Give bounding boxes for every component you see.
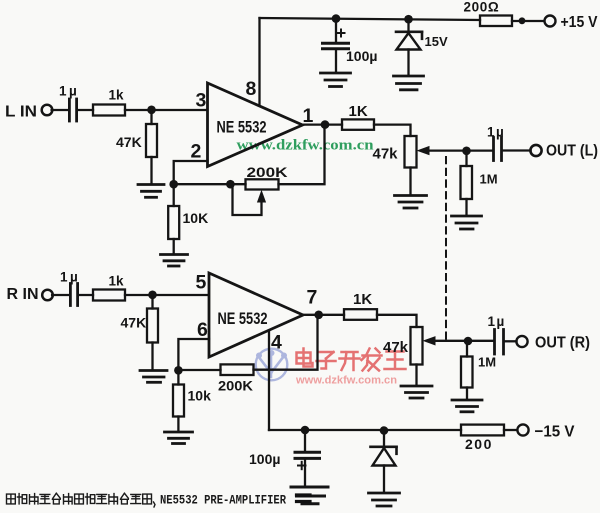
- wire C2 to ground: [335, 50, 337, 72]
- svg-text:+15 V: +15 V: [561, 14, 598, 31]
- ground G3: [321, 73, 351, 87]
- terminal -15V: [517, 424, 574, 441]
- resistor R2 47K: [116, 124, 157, 157]
- wire R12 to ground: [466, 388, 468, 399]
- node M junction: [301, 426, 310, 435]
- svg-text:NE5532 PRE-AMPLIFIER: NE5532 PRE-AMPLIFIER: [160, 494, 286, 508]
- svg-text:−15 V: −15 V: [535, 424, 575, 441]
- ground G5: [395, 196, 427, 209]
- wire +15V rail: [260, 18, 481, 20]
- terminal L IN: [5, 104, 52, 121]
- svg-text:200K: 200K: [247, 164, 288, 180]
- svg-text:200: 200: [465, 436, 493, 452]
- wire RP2 to ground: [409, 168, 411, 195]
- wire gang dashed: [445, 157, 447, 341]
- svg-text:15V: 15V: [425, 34, 448, 49]
- svg-text:R IN: R IN: [7, 286, 39, 303]
- resistor R3 10K: [168, 206, 208, 239]
- ground G6: [452, 216, 482, 229]
- wire C3 to OUT L: [503, 149, 531, 151]
- ground G7: [140, 371, 167, 383]
- resistor R1 1k: [93, 88, 125, 116]
- caption end mark: [297, 495, 311, 502]
- wire node D down: [335, 19, 337, 42]
- wire R IN to C4: [52, 294, 68, 296]
- svg-text:2: 2: [191, 141, 202, 163]
- resistor R12 1M: [461, 355, 496, 388]
- svg-text:1µ: 1µ: [488, 314, 506, 329]
- svg-text:47k: 47k: [373, 146, 399, 163]
- svg-text:200Ω: 200Ω: [464, 0, 500, 15]
- ground G2: [161, 255, 188, 267]
- svg-text:200K: 200K: [218, 378, 253, 394]
- watermark red text fa: [362, 349, 382, 371]
- resistor R4 200ohm: [464, 0, 513, 26]
- watermark red text zi: [317, 352, 336, 369]
- wire pin7 output: [303, 314, 344, 316]
- svg-text:7: 7: [307, 287, 318, 309]
- capacitor C2 100u electrolytic: [323, 30, 378, 65]
- svg-text:1K: 1K: [353, 291, 372, 308]
- node L junction: [464, 337, 473, 346]
- svg-text:47K: 47K: [116, 134, 142, 150]
- svg-text:1K: 1K: [349, 103, 368, 120]
- ground G10: [452, 400, 482, 412]
- capacitor C1 1u: [59, 84, 79, 122]
- svg-text:1M: 1M: [480, 172, 498, 187]
- wire pin2: [174, 161, 208, 184]
- wire node E down: [407, 19, 409, 31]
- wire R7 to pin5: [125, 294, 209, 296]
- wire pin1 output: [303, 123, 343, 125]
- wire R13 to -15V terminal: [504, 429, 517, 431]
- svg-text:1µ: 1µ: [487, 125, 505, 140]
- svg-text:1k: 1k: [109, 88, 125, 103]
- op-amp U1B NE5532: [209, 273, 303, 357]
- wire node N down: [383, 431, 385, 447]
- node D junction: [332, 14, 341, 23]
- wire pin8 up: [258, 18, 260, 105]
- wire D1 to ground: [407, 50, 409, 75]
- svg-text:47K: 47K: [121, 315, 147, 331]
- node A junction: [147, 106, 156, 115]
- wire node M down: [304, 430, 306, 451]
- node G junction: [321, 120, 330, 129]
- watermark red text dian: [297, 349, 406, 371]
- svg-text:6: 6: [197, 319, 208, 341]
- resistor R6 1M: [461, 166, 498, 199]
- wire R5 to RP2: [374, 125, 411, 136]
- ground G8: [165, 432, 193, 444]
- ground G9: [401, 386, 432, 398]
- watermark logo circle: [256, 349, 288, 381]
- wire node B to R3: [173, 184, 175, 206]
- svg-text:10K: 10K: [183, 210, 209, 226]
- wire RP3 to ground: [415, 365, 417, 385]
- wire C1 to R1: [78, 109, 93, 111]
- resistor R9 10k: [173, 385, 211, 417]
- capacitor C4 1u: [60, 270, 80, 306]
- capacitor C3 1u: [487, 125, 505, 161]
- svg-text:NE 5532: NE 5532: [218, 310, 268, 328]
- capacitor C6 100u electrolytic: [249, 451, 320, 469]
- wire -15V rail: [269, 429, 461, 431]
- terminal OUT (R): [516, 335, 590, 352]
- wire node L to R12: [466, 341, 468, 357]
- node E junction: [404, 15, 413, 24]
- potentiometer RP3 47k: [383, 327, 423, 365]
- RP2 wiper arrow: [417, 146, 493, 155]
- wire node I down: [151, 295, 153, 309]
- svg-text:1k: 1k: [109, 274, 125, 289]
- svg-text:L IN: L IN: [5, 104, 37, 121]
- svg-text:100µ: 100µ: [249, 451, 280, 467]
- zener D2: [371, 447, 397, 466]
- wire C5 to OUT R: [505, 340, 517, 342]
- potentiometer RP1 200K: [246, 164, 288, 190]
- wire R1 to pin3: [125, 109, 207, 111]
- svg-text:OUT (R): OUT (R): [535, 335, 590, 352]
- resistor R8 47K: [121, 309, 159, 343]
- svg-text:OUT (L): OUT (L): [546, 143, 598, 160]
- watermark red text kai: [340, 352, 360, 370]
- wire L IN to C1: [52, 109, 67, 111]
- ground G11: [291, 487, 328, 504]
- wire R3 to ground: [173, 239, 175, 254]
- wire feedback left: [174, 183, 246, 185]
- node C junction: [226, 180, 235, 189]
- wire node H to R6: [465, 151, 467, 166]
- node B junction: [169, 180, 178, 189]
- wire C4 to R7: [79, 294, 93, 296]
- svg-text:4: 4: [271, 332, 282, 354]
- svg-text:100µ: 100µ: [346, 48, 377, 64]
- svg-text:5: 5: [196, 272, 207, 294]
- wire R2 to ground: [150, 157, 152, 184]
- wire feedback right lower: [254, 315, 318, 370]
- svg-text:3: 3: [196, 90, 207, 112]
- svg-text:8: 8: [246, 78, 257, 100]
- svg-text:47k: 47k: [383, 339, 409, 356]
- wire R11 to RP3: [377, 315, 417, 327]
- wire C6 to ground: [304, 459, 306, 485]
- wire R9 to ground: [177, 417, 179, 431]
- resistor R10 200K: [218, 364, 254, 393]
- wire feedback right: [279, 125, 325, 184]
- potentiometer RP2 47k: [373, 136, 417, 168]
- wire D2 to ground: [383, 466, 385, 492]
- terminal +15V: [545, 14, 598, 31]
- svg-text:10k: 10k: [188, 388, 212, 404]
- wire pin4 down: [268, 331, 270, 431]
- ground G1: [138, 185, 164, 198]
- node I junction: [148, 291, 157, 300]
- wire R6 to ground: [465, 199, 467, 215]
- zener D1 15V: [396, 32, 448, 50]
- svg-text:1M: 1M: [478, 355, 496, 370]
- wire R8 to ground: [151, 343, 153, 370]
- svg-text:www.dzkfw.com.cn: www.dzkfw.com.cn: [295, 375, 397, 387]
- node H junction: [462, 147, 471, 156]
- resistor R7 1k: [93, 274, 125, 301]
- svg-text:1µ: 1µ: [60, 270, 80, 285]
- resistor R5 1K: [342, 103, 374, 130]
- capacitor C5 1u: [488, 314, 506, 354]
- wire feedback left lower: [178, 369, 220, 371]
- wire node J to R9: [177, 370, 179, 384]
- RP1 wiper arrow: [233, 186, 267, 215]
- RP3 wiper arrow: [423, 336, 494, 345]
- op-amp U1A NE5532: [208, 83, 303, 167]
- resistor R13 200: [461, 425, 504, 452]
- node F junction: [519, 17, 526, 24]
- svg-text:NE 5532: NE 5532: [217, 119, 267, 137]
- resistor R11 1K: [344, 291, 377, 320]
- ground G12: [369, 493, 400, 506]
- terminal R IN: [7, 286, 53, 303]
- ground G4: [394, 76, 424, 90]
- watermark red text wang: [385, 352, 406, 370]
- caption chinese pseudo glyphs: [7, 493, 156, 507]
- node K junction: [314, 311, 323, 320]
- svg-text:1µ: 1µ: [59, 84, 79, 99]
- terminal OUT (L): [530, 143, 598, 160]
- wire node A down: [150, 110, 152, 124]
- wire pin6: [178, 339, 209, 370]
- node N junction: [380, 426, 389, 435]
- wire R4 to +15V terminal: [512, 20, 544, 22]
- node J junction: [174, 366, 183, 375]
